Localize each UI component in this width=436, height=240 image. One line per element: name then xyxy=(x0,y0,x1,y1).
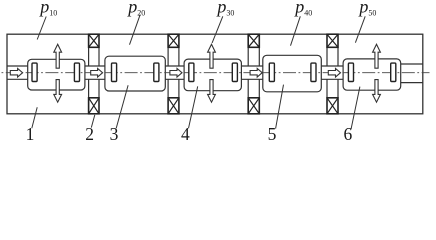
seal strip 3a xyxy=(189,63,194,81)
inlet channel walls xyxy=(7,66,28,79)
seal strip 4a xyxy=(269,63,274,81)
channel walls 4-5 xyxy=(321,66,343,79)
leader line p50 xyxy=(355,16,365,42)
seal strip 3b xyxy=(232,63,237,81)
channel walls 3-4 xyxy=(241,66,262,79)
crossed box top 4-5 xyxy=(327,34,338,47)
flow arrow 1-2 xyxy=(91,68,103,77)
svg-text:1: 1 xyxy=(26,124,35,144)
svg-text:3: 3 xyxy=(110,124,119,144)
chamber 3 xyxy=(184,59,241,91)
spacer column 2-3 xyxy=(168,47,179,98)
leader line part 1 xyxy=(32,107,37,128)
leader line p10 xyxy=(37,17,46,40)
crossed box bottom 1-2 xyxy=(89,98,99,114)
radial arrow down chamber 1 xyxy=(54,80,62,103)
radial arrow down chamber 3 xyxy=(208,80,216,103)
leader line p30 xyxy=(212,16,223,43)
chamber 1 (floating ring cell) xyxy=(28,59,85,90)
spacer column 1-2 xyxy=(89,47,99,98)
svg-text:4: 4 xyxy=(181,124,190,144)
housing outline xyxy=(7,34,423,114)
flow arrow 2-3 xyxy=(170,68,182,77)
chamber 2 xyxy=(105,56,165,91)
flow arrow inlet xyxy=(10,68,22,77)
chamber 4 xyxy=(263,55,322,92)
radial arrow down chamber 5 xyxy=(373,80,381,103)
leader line p40 xyxy=(291,16,301,45)
radial arrow up chamber 3 xyxy=(208,44,216,68)
flow arrow 3-4 xyxy=(250,68,262,77)
leader line part 2 xyxy=(91,115,95,128)
crossed box top 1-2 xyxy=(89,34,99,47)
crossed box top 3-4 xyxy=(248,34,259,47)
flow arrow 4-5 xyxy=(328,68,340,77)
radial arrow up chamber 1 xyxy=(54,44,62,68)
leader line part 5 xyxy=(276,85,284,129)
svg-text:2: 2 xyxy=(85,124,94,144)
svg-text:6: 6 xyxy=(344,124,353,144)
seal strip 1a xyxy=(32,63,37,81)
leader line p20 xyxy=(130,15,141,45)
channel walls 1-2 xyxy=(85,66,105,79)
crossed box bottom 4-5 xyxy=(327,98,338,114)
leader line part 3 xyxy=(116,85,128,128)
svg-text:5: 5 xyxy=(268,124,277,144)
seal strip 1b xyxy=(74,63,79,81)
seal strip 2a xyxy=(112,63,117,81)
radial arrow up chamber 5 xyxy=(373,44,381,68)
leader line part 6 xyxy=(351,87,360,130)
crossed box top 2-3 xyxy=(168,34,179,47)
crossed box bottom 3-4 xyxy=(248,98,259,114)
seal strip 2b xyxy=(154,63,159,81)
centerline (dash-dot axis) xyxy=(1,72,430,74)
crossed box bottom 2-3 xyxy=(168,98,179,114)
seal strip 5b xyxy=(391,63,396,81)
seal strip 5a xyxy=(348,63,353,81)
outlet channel walls xyxy=(401,64,423,83)
spacer column 4-5 xyxy=(327,47,338,98)
chamber 5 xyxy=(343,59,401,90)
channel walls 2-3 xyxy=(165,66,184,79)
spacer column 3-4 xyxy=(248,47,259,98)
seal strip 4b xyxy=(311,63,316,81)
leader line part 4 xyxy=(189,86,198,128)
